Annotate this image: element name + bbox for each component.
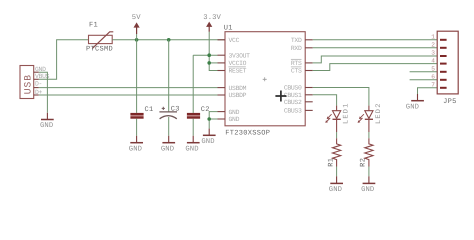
U1 pin CBUS0 [284, 85, 313, 92]
svg-text:CBUS0: CBUS0 [284, 85, 302, 92]
wire D- USB to USBDM [39, 87, 218, 89]
JP5 pad 1 [431, 34, 446, 41]
svg-text:LED2: LED2 [375, 102, 383, 124]
svg-text:USBDP: USBDP [229, 92, 247, 99]
wire LED2 to R2 [368, 132, 370, 138]
wire C1 top [136, 40, 138, 113]
U1 pin GND2 [218, 116, 240, 123]
svg-text:CBUS3: CBUS3 [284, 108, 302, 115]
svg-text:RESET: RESET [229, 68, 247, 75]
supply 3.3V [203, 14, 221, 32]
svg-text:R2: R2 [360, 158, 368, 167]
svg-text:3V3OUT: 3V3OUT [229, 52, 251, 59]
svg-text:GND: GND [229, 109, 240, 116]
svg-text:JP5: JP5 [443, 98, 457, 106]
wire D+ USB to USBDP [39, 94, 218, 96]
resistor R2 [360, 138, 373, 167]
wire VBUS to fuse [39, 40, 89, 80]
wire USB GND to ground [39, 72, 48, 113]
svg-text:GND: GND [161, 146, 174, 154]
U1 pin VCCIO [218, 60, 247, 67]
connector J1 pin GND stub [34, 66, 46, 73]
capacitor C1 [130, 106, 153, 119]
svg-text:VCC: VCC [229, 37, 240, 44]
U1 crosshair origin [275, 91, 286, 102]
svg-text:F1: F1 [89, 22, 98, 30]
svg-text:4: 4 [431, 57, 435, 64]
wire CBUS1 to LED1 [313, 95, 337, 106]
connector J1 pin D+ stub [34, 89, 43, 96]
wire RTS to JP5 pin3 [313, 56, 438, 63]
wire CBUS0 to LED2 [313, 88, 369, 106]
svg-text:GND: GND [185, 146, 198, 154]
supply 5V [132, 14, 141, 40]
svg-text:3: 3 [431, 50, 435, 57]
svg-text:CTS: CTS [291, 68, 302, 75]
resistor R1 [327, 138, 340, 167]
svg-text:USBDM: USBDM [229, 85, 247, 92]
svg-text:PTCSMD: PTCSMD [86, 46, 113, 54]
wire LED1 to R1 [336, 132, 338, 138]
svg-text:CBUS1: CBUS1 [284, 92, 302, 99]
svg-text:R1: R1 [327, 158, 335, 167]
ground under R1 [329, 176, 343, 194]
U1 pin CBUS2 [284, 99, 313, 106]
svg-text:3.3V: 3.3V [203, 14, 221, 22]
wire JP5 pin7 to ground [418, 88, 438, 94]
U1 pin RXD [291, 45, 313, 52]
wire JP5 pin5 stub [410, 71, 438, 73]
svg-text:VCCIO: VCCIO [229, 60, 247, 67]
svg-text:C1: C1 [145, 106, 154, 114]
U1 pin VCC [218, 37, 240, 44]
capacitor C2 [187, 106, 210, 119]
svg-text:GND: GND [201, 138, 214, 146]
U1 pin CBUS3 [284, 108, 313, 115]
wire 5V rail: fuse to IC VCC [112, 39, 225, 41]
junction at C3 top [167, 38, 171, 42]
U1 pin RESET [218, 67, 247, 75]
svg-text:6: 6 [431, 74, 435, 81]
JP5 pad 2 [431, 42, 446, 49]
wire C2 bottom to ground [192, 119, 194, 136]
svg-text:U1: U1 [224, 25, 233, 33]
svg-text:GND: GND [40, 122, 53, 130]
U1 pin 3V3OUT [218, 52, 251, 59]
op-amp U1 FT230XSSOP body [224, 25, 305, 138]
svg-text:TXD: TXD [291, 37, 302, 44]
svg-text:LED1: LED1 [343, 102, 351, 124]
svg-text:GND: GND [229, 116, 240, 123]
wire IC GND pins to ground [209, 112, 217, 129]
JP5 pad 4 [431, 57, 446, 64]
svg-text:7: 7 [431, 82, 435, 89]
junction 3.3V/VCCIO [207, 61, 211, 65]
wire C1 bottom to ground [136, 119, 138, 136]
JP5 pad 5 [431, 66, 446, 73]
wire RXD to JP5 pin2 [313, 47, 438, 49]
svg-text:5: 5 [431, 66, 435, 73]
ground under C3 [161, 136, 175, 154]
ground under USB [40, 113, 54, 130]
wire R1 to ground [336, 167, 338, 177]
connector JP5 body [437, 31, 458, 106]
wire JP5 pin6 stub [410, 79, 438, 81]
junction at 5V arrow [135, 38, 139, 42]
U1 pin USBDP [218, 92, 247, 99]
svg-text:USB: USB [23, 74, 34, 94]
wire C3 bottom to ground [168, 117, 170, 136]
LED LED1 [325, 102, 350, 132]
wire 3.3V vertical to RESET row [209, 32, 217, 71]
ground at JP5 [406, 94, 424, 112]
connector J1 pin D- stub [34, 81, 42, 88]
svg-text:GND: GND [361, 186, 374, 194]
U1 pin TXD [291, 37, 313, 44]
ground under C2 [185, 136, 199, 154]
wire C3 top [168, 40, 170, 112]
junction 3.3V/3V3OUT [207, 53, 211, 57]
U1 pin GND1 [218, 109, 240, 116]
capacitor C3 polarized [159, 105, 179, 119]
JP5 pad 6 [431, 74, 446, 81]
svg-text:2: 2 [431, 42, 435, 49]
svg-text:FT230XSSOP: FT230XSSOP [225, 130, 270, 138]
wire TXD to JP5 pin1 [313, 39, 438, 41]
svg-text:5V: 5V [132, 14, 141, 22]
ground under IC [201, 129, 215, 147]
U1 pin USBDM [218, 85, 247, 92]
svg-text:RTS: RTS [291, 60, 302, 67]
svg-text:C3: C3 [171, 105, 180, 113]
svg-text:GND: GND [406, 104, 419, 112]
connector J1 pin VBUS stub [34, 73, 50, 80]
svg-text:D-: D- [35, 81, 42, 88]
U1 pin CBUS1 [284, 92, 313, 99]
wire 3V3OUT row from C2 [193, 54, 217, 56]
wire C2 top [192, 55, 194, 113]
svg-text:GND: GND [129, 146, 142, 154]
wire VCCIO row [209, 62, 217, 64]
U1 pin RTS [291, 59, 313, 67]
svg-text:GND: GND [329, 186, 342, 194]
U1 pin CTS [291, 67, 313, 75]
connector J1 USB body [20, 66, 34, 99]
wire R2 to ground [368, 167, 370, 177]
ground under C1 [129, 136, 143, 154]
JP5 pad 7 [431, 82, 446, 89]
svg-text:RXD: RXD [291, 45, 302, 52]
fuse F1 PTCSMD [86, 22, 113, 54]
svg-text:CBUS2: CBUS2 [284, 99, 302, 106]
JP5 pad 3 [431, 50, 446, 57]
LED LED2 [358, 102, 383, 132]
wire CTS to JP5 pin4 [313, 64, 438, 71]
svg-text:1: 1 [431, 34, 435, 41]
svg-text:C2: C2 [201, 106, 210, 114]
junction IC GND [207, 117, 211, 121]
U1 origin cross small [263, 77, 267, 81]
ground under R2 [361, 176, 375, 194]
